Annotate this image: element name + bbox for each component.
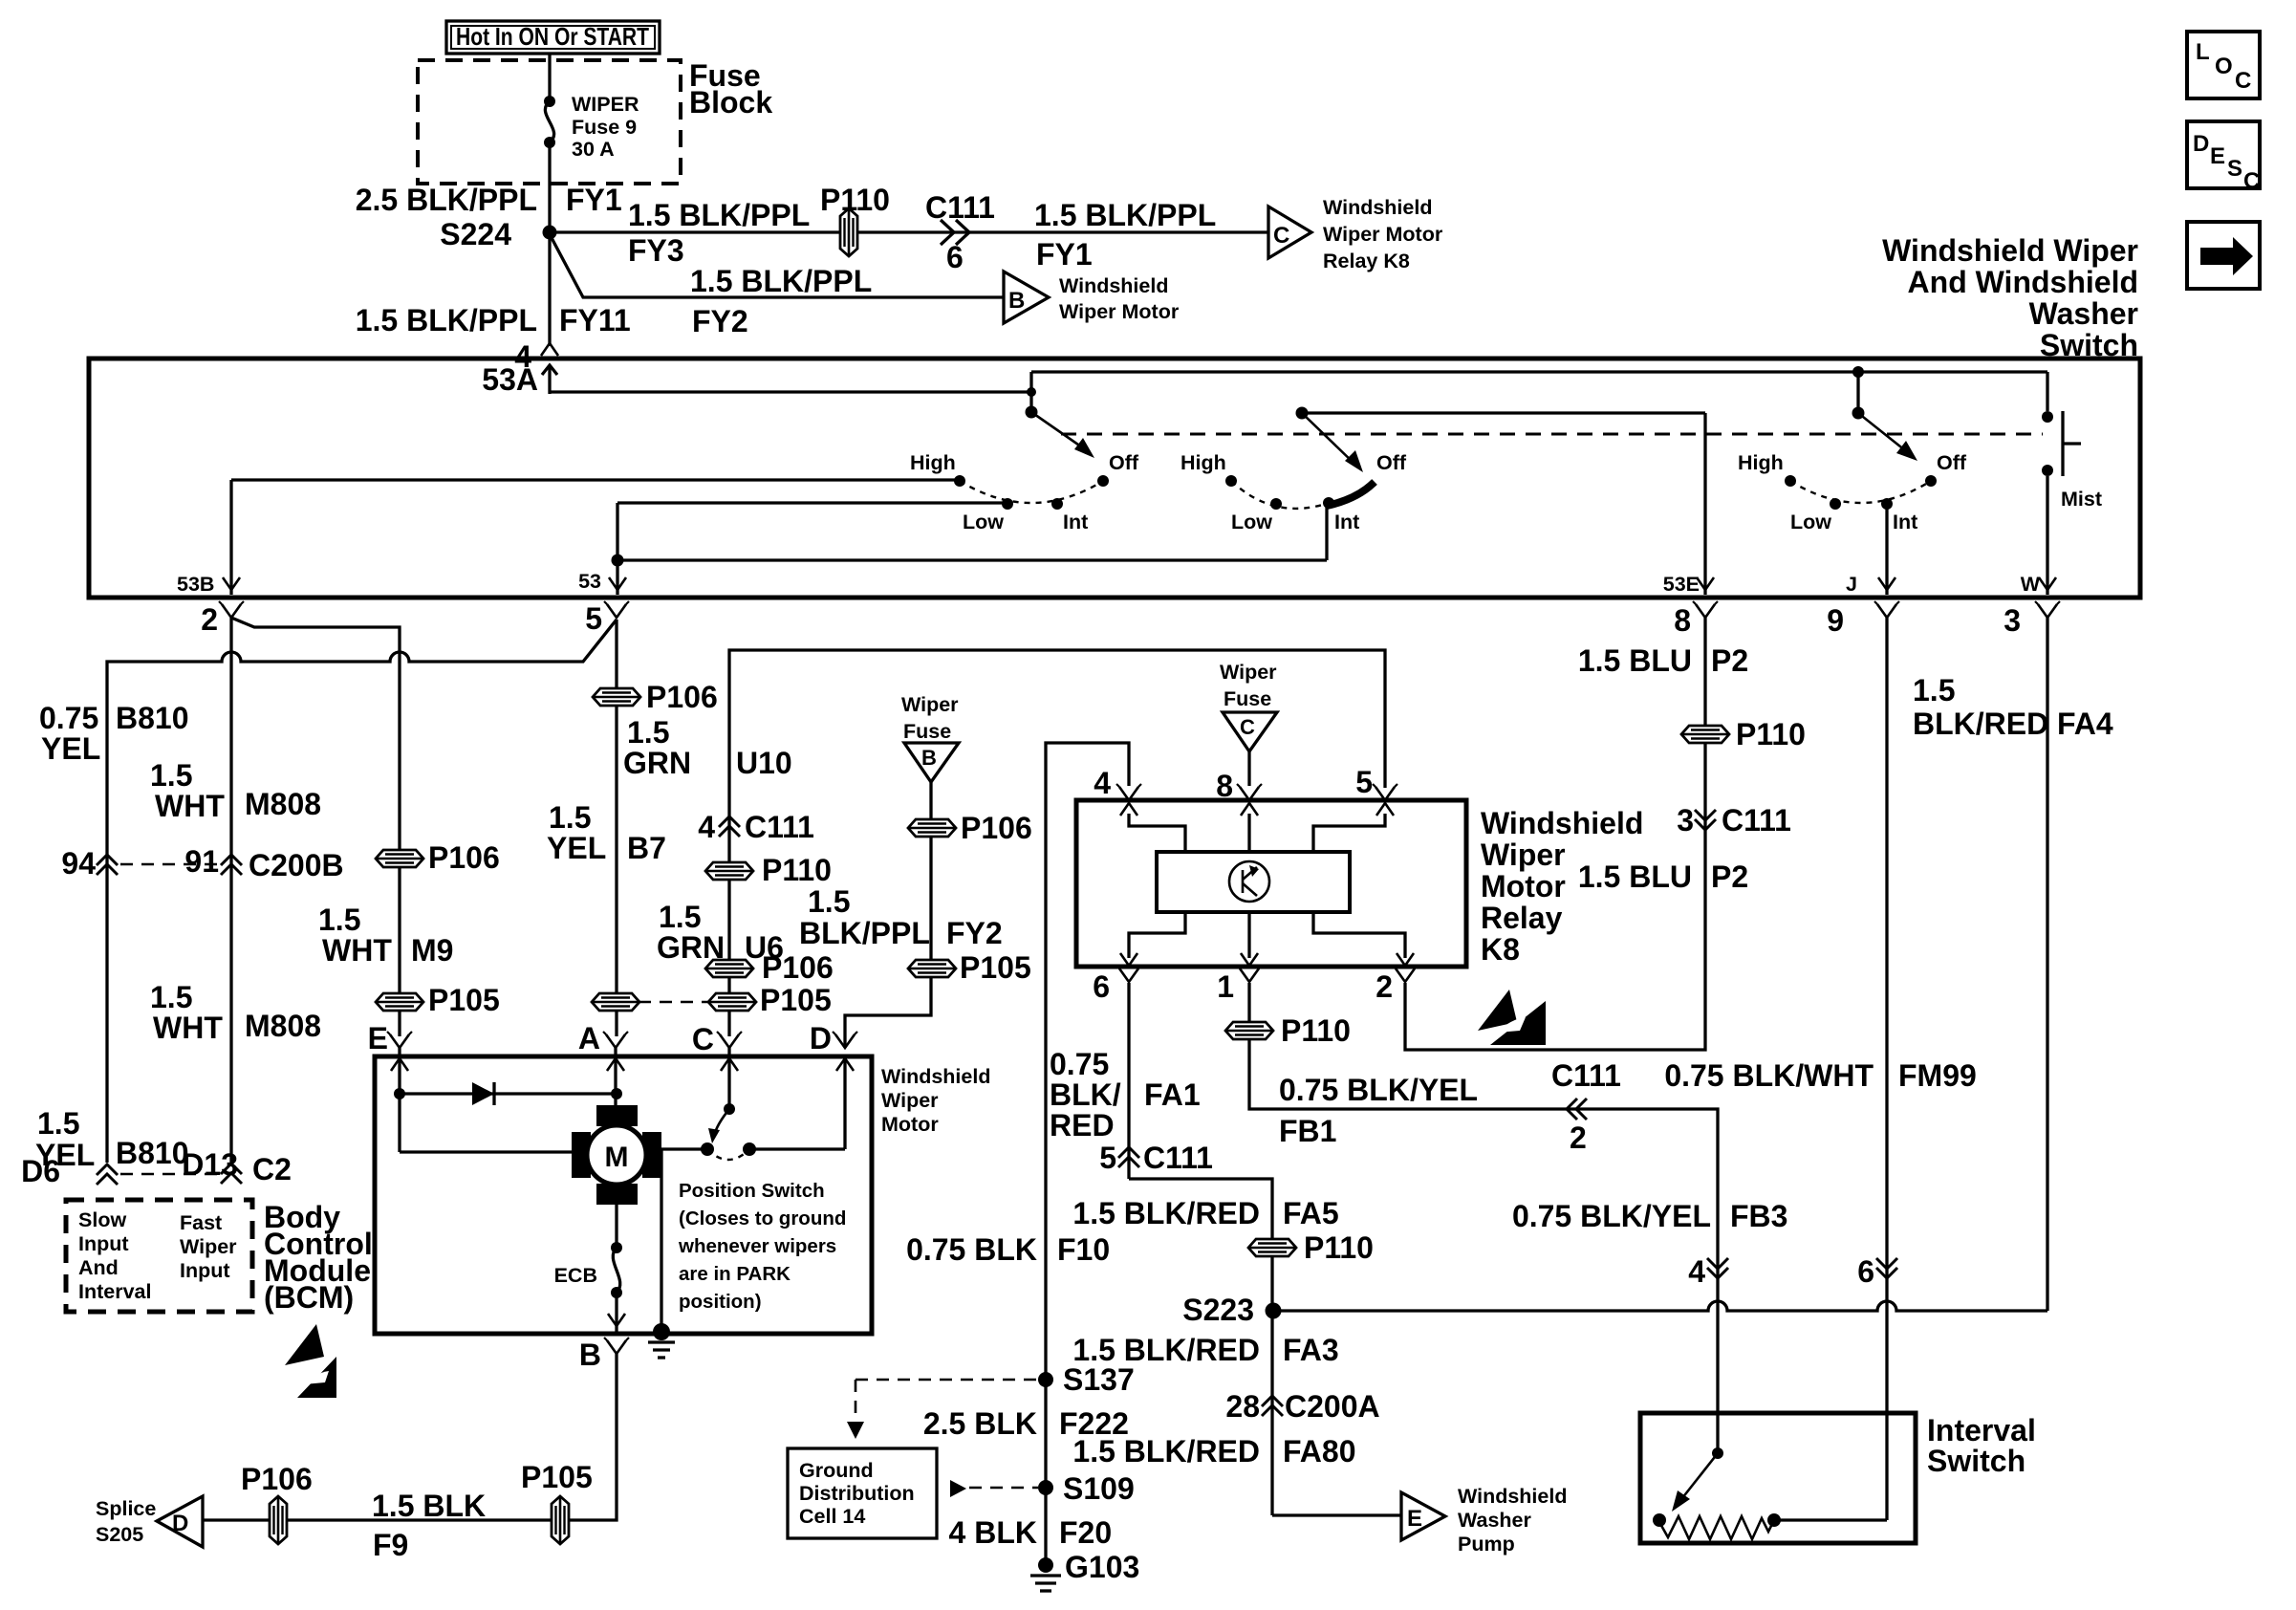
svg-text:4: 4	[698, 810, 715, 844]
wire FM99 from switch pin 9	[1885, 618, 1888, 1520]
svg-text:P2: P2	[1711, 859, 1748, 894]
svg-text:J: J	[1846, 573, 1857, 596]
svg-text:6: 6	[1093, 969, 1110, 1004]
svg-text:P105: P105	[521, 1460, 593, 1494]
off-page triangle E to washer pump	[1401, 1492, 1445, 1540]
svg-text:P105: P105	[760, 983, 832, 1017]
svg-text:Windshield: Windshield	[1323, 196, 1432, 219]
svg-text:C111: C111	[745, 810, 814, 844]
position switch common contact	[701, 1142, 714, 1156]
connector P105 on FY2	[908, 960, 956, 977]
svg-text:E: E	[1407, 1506, 1422, 1532]
off-page triangle C to wiper motor relay	[1268, 207, 1311, 258]
svg-text:C111: C111	[1722, 803, 1791, 838]
arrow reference box	[2187, 222, 2260, 289]
net 53 riser from SW1 Low wire	[616, 503, 618, 595]
connector P110 on FB1	[1225, 1022, 1273, 1039]
wire F9 from pin B to splice	[203, 1354, 617, 1520]
svg-text:5: 5	[585, 601, 602, 636]
svg-text:FB3: FB3	[1730, 1199, 1787, 1233]
svg-text:M9: M9	[411, 933, 453, 968]
fuse block dashed box	[418, 60, 681, 184]
dashed stub at S109	[950, 1480, 966, 1497]
windshield wiper motor relay box	[1076, 800, 1466, 967]
ground G103	[1038, 1557, 1053, 1573]
dashed stub at S137	[856, 1379, 1038, 1382]
svg-text:Pump: Pump	[1458, 1533, 1515, 1556]
off-page triangle D to splice S205	[157, 1496, 203, 1547]
svg-text:BLK/: BLK/	[1050, 1077, 1121, 1112]
position switch park contact	[743, 1142, 756, 1156]
svg-text:YEL: YEL	[547, 831, 606, 865]
mechanical link dashed line	[1061, 433, 2043, 436]
SW2 wiper thick contact arc	[1327, 482, 1375, 506]
svg-text:B810: B810	[116, 1136, 189, 1170]
svg-text:Int: Int	[1334, 511, 1359, 533]
svg-text:And: And	[78, 1256, 119, 1279]
svg-text:G103: G103	[1065, 1550, 1139, 1584]
svg-text:BLK/RED: BLK/RED	[1913, 707, 2048, 741]
connector C200B pin 94	[97, 855, 118, 875]
connector P106 on U6	[705, 960, 753, 977]
motor brush to ECB wire	[615, 1205, 617, 1248]
svg-text:Wiper Motor: Wiper Motor	[1323, 223, 1443, 246]
svg-text:GRN: GRN	[623, 746, 691, 780]
SW2 Int contact	[1323, 497, 1334, 509]
svg-text:0.75 BLK: 0.75 BLK	[906, 1232, 1037, 1267]
svg-text:F20: F20	[1059, 1515, 1112, 1550]
svg-text:Off: Off	[1937, 451, 1967, 474]
svg-text:53A: 53A	[482, 362, 538, 397]
svg-text:High: High	[1180, 451, 1226, 474]
svg-text:Distribution: Distribution	[799, 1482, 915, 1505]
SW2 Low contact	[1270, 498, 1282, 510]
net 53B wire to pin 2	[229, 480, 232, 595]
svg-text:1.5: 1.5	[318, 903, 360, 937]
SW1 Int contact	[1051, 498, 1063, 510]
svg-text:1.5 BLK/RED: 1.5 BLK/RED	[1072, 1434, 1260, 1469]
connector C200B pin 91	[221, 855, 242, 875]
svg-text:B7: B7	[627, 831, 666, 865]
svg-text:4: 4	[1688, 1254, 1705, 1289]
svg-text:S223: S223	[1182, 1293, 1254, 1327]
svg-text:5: 5	[1099, 1141, 1116, 1175]
off-page triangle B to windshield wiper motor	[1004, 272, 1049, 323]
svg-text:1.5: 1.5	[1913, 673, 1955, 707]
fuse WIPER Fuse 9 30A symbol	[544, 96, 555, 107]
connector P105 on M9	[376, 993, 423, 1011]
svg-text:S109: S109	[1063, 1471, 1135, 1506]
svg-text:5: 5	[1355, 765, 1373, 799]
svg-text:whenever wipers: whenever wipers	[678, 1235, 836, 1257]
park diode D1	[472, 1082, 494, 1105]
connector C111 pin 2 on FB1	[1567, 1099, 1587, 1120]
svg-text:1.5: 1.5	[549, 800, 591, 835]
connector P106 on F9	[270, 1496, 287, 1544]
SW1 High contact and wire	[231, 478, 956, 481]
svg-text:BLK/PPL: BLK/PPL	[799, 916, 930, 950]
switch pin 9	[1874, 601, 1899, 618]
net 53 horizontal link to SW2 Int	[617, 558, 1327, 561]
svg-text:W: W	[2021, 573, 2041, 596]
svg-text:1.5 BLU: 1.5 BLU	[1578, 859, 1692, 894]
svg-text:B810: B810	[116, 701, 189, 735]
relay pin 6	[1116, 966, 1141, 982]
svg-text:1: 1	[1217, 969, 1234, 1004]
svg-text:L: L	[2196, 39, 2210, 65]
svg-text:Windshield: Windshield	[881, 1065, 990, 1088]
SW3 Low contact	[1830, 498, 1841, 510]
svg-text:P2: P2	[1711, 643, 1748, 678]
svg-text:S137: S137	[1063, 1362, 1135, 1397]
svg-text:Motor: Motor	[1481, 869, 1566, 903]
wire FY2 branch from S224 to triangle B	[550, 234, 1004, 297]
connector C111 pin 4 on GRN	[719, 816, 740, 837]
svg-text:4 BLK: 4 BLK	[949, 1515, 1037, 1550]
wire FB1 from relay pin 1	[1249, 983, 1718, 1285]
svg-text:2: 2	[1570, 1120, 1587, 1155]
SW1 dashed throw arc	[960, 481, 1103, 503]
svg-text:WIPER: WIPER	[572, 93, 639, 116]
svg-text:8: 8	[1216, 769, 1233, 803]
svg-text:1.5: 1.5	[659, 900, 701, 934]
svg-text:53: 53	[578, 570, 601, 593]
svg-text:P106: P106	[241, 1462, 313, 1496]
SW3 Off contact	[1925, 475, 1937, 487]
connector C204 pin 6	[1876, 1258, 1897, 1278]
BCM dashed link D6-C2	[120, 1173, 218, 1176]
wire P2 from switch pin 8 to relay pin 2	[1405, 618, 1705, 1050]
interval arm pivot	[1716, 1285, 1719, 1453]
svg-text:1.5 BLK/RED: 1.5 BLK/RED	[1072, 1196, 1260, 1230]
switch SW1 arm arrow	[1031, 412, 1088, 451]
svg-text:0.75 BLK/YEL: 0.75 BLK/YEL	[1512, 1199, 1711, 1233]
svg-text:FA3: FA3	[1283, 1333, 1339, 1367]
svg-text:P106: P106	[428, 840, 500, 875]
SW1 Off contact	[1097, 475, 1109, 487]
svg-text:0.75 BLK/WHT: 0.75 BLK/WHT	[1664, 1058, 1874, 1093]
svg-text:53B: 53B	[177, 573, 214, 596]
svg-text:FY1: FY1	[1036, 237, 1093, 272]
SW2 dashed throw arc	[1231, 481, 1329, 509]
svg-text:Input: Input	[180, 1259, 230, 1282]
DESC reference box	[2187, 121, 2260, 188]
svg-text:6: 6	[946, 240, 964, 274]
svg-text:YEL: YEL	[41, 731, 100, 766]
connector C111 pin 6 on FY3	[941, 220, 954, 245]
position switch ground leg	[661, 1149, 707, 1332]
SW1 Low contact and wire	[617, 501, 1003, 504]
svg-text:94: 94	[61, 846, 96, 881]
wire M808 from pin 2 down to BCM	[229, 618, 232, 1163]
position switch arm	[724, 1103, 735, 1115]
svg-text:C111: C111	[925, 190, 995, 225]
svg-text:Wiper: Wiper	[881, 1089, 939, 1112]
svg-text:Off: Off	[1109, 451, 1139, 474]
relay pin 5	[1373, 784, 1397, 800]
svg-text:P110: P110	[1736, 717, 1806, 751]
svg-text:Fuse 9: Fuse 9	[572, 116, 637, 139]
relay pin 1	[1237, 966, 1262, 982]
connector C204 pin 4	[1707, 1258, 1728, 1278]
connector P110 on P2	[1681, 726, 1729, 743]
svg-text:Input: Input	[78, 1232, 129, 1255]
connector P110 on U6	[705, 862, 753, 880]
svg-text:WHT: WHT	[155, 789, 225, 823]
interval rheostat R1	[1653, 1513, 1666, 1527]
svg-text:Int: Int	[1063, 511, 1088, 533]
svg-text:0.75 BLK/YEL: 0.75 BLK/YEL	[1279, 1073, 1478, 1107]
ground symbol below motor box	[648, 1340, 675, 1343]
relay pin 8	[1237, 784, 1262, 800]
SW2 arm pivot	[1296, 407, 1309, 420]
wire B7 pin 5 column	[615, 620, 617, 1036]
wire B810 horizontal with hops	[107, 620, 617, 1163]
svg-text:C: C	[692, 1022, 714, 1056]
windshield wiper switch box	[89, 359, 2140, 598]
motor A internal wire	[614, 1056, 617, 1105]
svg-text:FY1: FY1	[566, 183, 622, 217]
relay internal arrows	[1120, 803, 1137, 816]
BCM ESD symbol	[285, 1324, 324, 1365]
svg-text:FM99: FM99	[1898, 1058, 1977, 1093]
Mist momentary contact plate	[2061, 411, 2064, 476]
svg-text:P110: P110	[1304, 1230, 1374, 1265]
svg-text:Low: Low	[963, 511, 1004, 533]
svg-text:K8: K8	[1481, 932, 1520, 967]
svg-text:Fast: Fast	[180, 1211, 222, 1234]
svg-text:3: 3	[2004, 603, 2021, 638]
interval arm arrow	[1679, 1453, 1718, 1503]
svg-text:1.5 BLK: 1.5 BLK	[372, 1489, 486, 1523]
svg-text:M808: M808	[245, 1009, 321, 1043]
splice S137	[1038, 1372, 1053, 1387]
svg-text:ECB: ECB	[554, 1264, 597, 1287]
svg-text:WHT: WHT	[153, 1011, 223, 1045]
svg-text:Fuse: Fuse	[1224, 687, 1271, 710]
svg-text:P106: P106	[762, 950, 834, 985]
svg-text:Wiper: Wiper	[180, 1235, 237, 1258]
svg-text:S205: S205	[96, 1523, 143, 1546]
svg-text:1.5 BLK/PPL: 1.5 BLK/PPL	[1034, 198, 1216, 232]
wire FA4 from switch pin 3	[2046, 618, 2048, 1311]
svg-text:8: 8	[1674, 603, 1691, 638]
wire FA1 elbow to FA5 column	[1129, 1179, 1272, 1515]
svg-text:91: 91	[184, 844, 219, 879]
svg-text:P110: P110	[1281, 1013, 1351, 1048]
svg-text:0.75: 0.75	[1050, 1047, 1109, 1081]
svg-text:Windshield: Windshield	[1059, 274, 1168, 297]
windshield wiper motor box	[375, 1056, 872, 1334]
svg-text:Wiper: Wiper	[1220, 661, 1277, 684]
connector BCM pin C2	[221, 1164, 242, 1184]
switch pin 8	[1693, 601, 1718, 618]
svg-text:Block: Block	[689, 85, 772, 120]
svg-text:6: 6	[1857, 1254, 1874, 1289]
ground distribution reference box	[788, 1448, 937, 1538]
svg-text:28: 28	[1225, 1389, 1260, 1424]
svg-text:B: B	[921, 746, 937, 770]
svg-text:Wiper Motor: Wiper Motor	[1059, 300, 1180, 323]
motor pin A	[603, 1032, 628, 1048]
SW3 dashed throw arc	[1790, 481, 1931, 503]
connector C111 pin 3 on P2	[1695, 810, 1716, 830]
svg-text:A: A	[578, 1021, 600, 1055]
power source label box Hot In ON Or START	[446, 21, 660, 54]
svg-text:B: B	[579, 1338, 601, 1372]
svg-text:Washer: Washer	[1458, 1509, 1531, 1532]
connector C111 pin 5 on FA1	[1118, 1147, 1139, 1167]
svg-text:M: M	[605, 1142, 629, 1173]
svg-text:9: 9	[1827, 603, 1844, 638]
svg-text:FA80: FA80	[1283, 1434, 1355, 1469]
svg-text:FA1: FA1	[1144, 1077, 1201, 1112]
connector C200A pin 28	[1262, 1396, 1283, 1416]
svg-text:1.5 BLK/PPL: 1.5 BLK/PPL	[628, 198, 810, 232]
motor B exit wire	[615, 1293, 617, 1333]
svg-text:B: B	[1008, 288, 1025, 314]
svg-text:D: D	[810, 1021, 832, 1055]
svg-text:1.5 BLU: 1.5 BLU	[1578, 643, 1692, 678]
svg-text:3: 3	[1677, 803, 1694, 838]
park diode line	[400, 1092, 617, 1095]
svg-text:Low: Low	[1231, 511, 1272, 533]
svg-text:M808: M808	[245, 787, 321, 821]
switch pin 2	[219, 601, 244, 618]
svg-text:High: High	[910, 451, 956, 474]
connector P105 on F9	[552, 1496, 569, 1544]
svg-text:Off: Off	[1376, 451, 1407, 474]
svg-text:(BCM): (BCM)	[264, 1280, 354, 1315]
relay coil-transistor symbol	[1229, 861, 1269, 902]
svg-text:C111: C111	[1143, 1141, 1213, 1175]
svg-text:S224: S224	[440, 217, 511, 251]
motor pin D	[833, 1032, 857, 1048]
motor M1 symbol	[596, 1105, 638, 1126]
svg-text:1.5: 1.5	[627, 715, 669, 750]
svg-text:Wiper: Wiper	[1481, 838, 1566, 872]
svg-text:C200B: C200B	[249, 848, 344, 882]
svg-text:C111: C111	[1551, 1058, 1621, 1093]
svg-text:Interval: Interval	[1927, 1413, 2036, 1447]
relay ESD symbol	[1478, 990, 1517, 1031]
svg-text:High: High	[1738, 451, 1784, 474]
splice S223	[1266, 1303, 1282, 1319]
connector P110 on FA5	[1248, 1239, 1296, 1256]
wire FY2 fuse B to pin D	[845, 782, 931, 1048]
svg-text:C: C	[2243, 168, 2260, 194]
connector P110 on FY3	[840, 208, 857, 256]
svg-text:Windshield: Windshield	[1481, 806, 1643, 840]
svg-text:2.5 BLK: 2.5 BLK	[923, 1406, 1037, 1441]
svg-text:position): position)	[679, 1291, 762, 1313]
svg-text:Wiper: Wiper	[901, 693, 959, 716]
svg-text:E: E	[368, 1021, 388, 1055]
svg-text:P105: P105	[960, 950, 1031, 985]
svg-text:P106: P106	[646, 680, 718, 714]
svg-text:C: C	[1240, 715, 1255, 739]
wire F10 relay pin4 to ground G103	[1046, 743, 1129, 1565]
svg-text:O: O	[2215, 54, 2233, 79]
svg-text:Relay: Relay	[1481, 901, 1563, 935]
svg-text:And Windshield: And Windshield	[1908, 265, 2138, 299]
svg-text:Int: Int	[1893, 511, 1917, 533]
motor pin C	[717, 1032, 742, 1048]
svg-text:Interval: Interval	[78, 1280, 151, 1303]
node 53A junction riser	[1029, 372, 1032, 412]
switch pin 3	[2035, 601, 2060, 618]
connector P106 on B7	[593, 688, 640, 706]
LOC reference box	[2187, 32, 2260, 98]
wire FA80 to washer pump triangle	[1272, 1513, 1401, 1516]
svg-text:53E: 53E	[1663, 573, 1700, 596]
svg-text:Washer: Washer	[2029, 296, 2138, 331]
wire M9 branch pin 2 to E column	[231, 618, 400, 1036]
position switch wire to D	[749, 1147, 845, 1150]
svg-text:RED: RED	[1050, 1108, 1115, 1142]
SW3 arm arrow	[1858, 413, 1910, 454]
connector P106 on FY2	[908, 819, 956, 837]
svg-text:1.5 BLK/PPL: 1.5 BLK/PPL	[356, 303, 537, 337]
svg-text:F9: F9	[373, 1528, 408, 1562]
svg-text:S: S	[2227, 156, 2242, 182]
svg-text:WHT: WHT	[322, 933, 392, 968]
svg-text:D: D	[2193, 131, 2209, 157]
relay inner body	[1157, 852, 1350, 912]
interval switch box	[1640, 1413, 1916, 1543]
svg-text:Motor: Motor	[881, 1113, 939, 1136]
wire FY3 from S224 to relay triangle	[550, 230, 1268, 233]
P105 dashed pair link	[639, 1001, 709, 1004]
svg-text:Fuse: Fuse	[903, 720, 951, 743]
Mist switch feed from top bus	[2046, 372, 2048, 411]
switch pin 5	[604, 601, 629, 618]
SW2 High contact	[1225, 475, 1237, 487]
ground dot on motor box edge	[653, 1323, 670, 1340]
SW3 Int contact	[1881, 498, 1893, 510]
circuit breaker ECB	[611, 1242, 622, 1253]
switch SW1 arm pivot	[1026, 406, 1038, 419]
svg-text:C: C	[2235, 68, 2251, 94]
SW3 High contact	[1785, 475, 1796, 487]
motor pin E	[387, 1032, 412, 1048]
svg-text:(Closes to ground: (Closes to ground	[679, 1207, 846, 1229]
connector P106 on M9	[376, 850, 423, 867]
svg-text:D: D	[172, 1511, 188, 1536]
svg-text:1.5 BLK/PPL: 1.5 BLK/PPL	[690, 264, 872, 298]
svg-text:1.5: 1.5	[150, 980, 192, 1014]
wire S223 to FA4 with hops	[1273, 1301, 2047, 1311]
svg-text:Low: Low	[1790, 511, 1831, 533]
svg-text:FY2: FY2	[692, 304, 748, 338]
net J wire from SW3 Int to pin 9	[1885, 504, 1888, 595]
svg-text:1.5: 1.5	[150, 758, 192, 793]
svg-text:P110: P110	[820, 183, 890, 217]
switch internal top bus	[1031, 370, 2047, 373]
motor pin B	[604, 1338, 629, 1354]
svg-text:2.5 BLK/PPL: 2.5 BLK/PPL	[356, 183, 537, 217]
svg-text:P105: P105	[428, 983, 500, 1017]
svg-text:Cell 14: Cell 14	[799, 1505, 865, 1528]
svg-text:FY3: FY3	[628, 233, 684, 268]
interval resistor tail to pin 6	[1774, 1518, 1887, 1521]
svg-text:FA5: FA5	[1283, 1196, 1339, 1230]
svg-text:4: 4	[1094, 766, 1111, 800]
wire from Hot box through fuse block to switch pin 4	[548, 54, 551, 101]
svg-text:U10: U10	[736, 746, 792, 780]
connector C200B dashed link	[120, 863, 218, 866]
svg-text:FB1: FB1	[1279, 1114, 1336, 1148]
